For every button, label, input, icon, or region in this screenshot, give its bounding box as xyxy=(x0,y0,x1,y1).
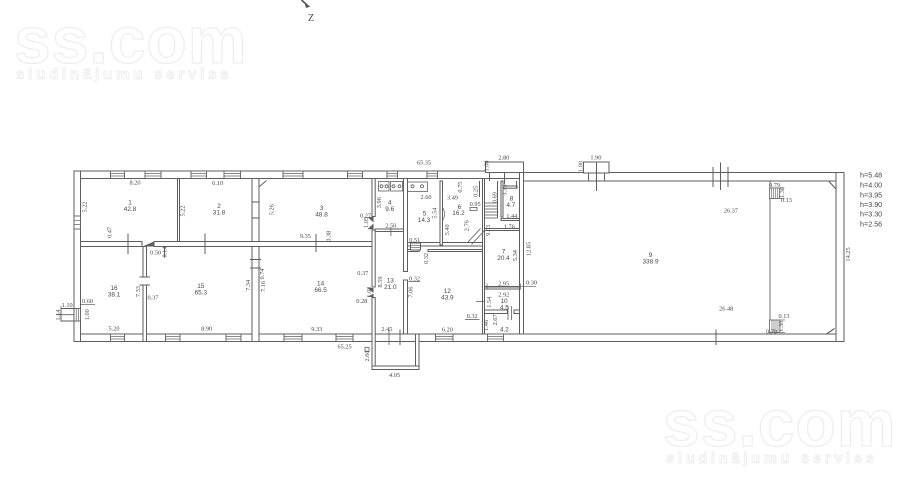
svg-text:0.69: 0.69 xyxy=(491,192,498,203)
wc circle 3 xyxy=(392,185,395,188)
thick wall door gap top xyxy=(253,179,259,186)
corridor west wall middle xyxy=(372,230,375,287)
door mark corridor upper A xyxy=(368,217,374,223)
window top 6 xyxy=(348,171,363,179)
svg-text:16.2: 16.2 xyxy=(452,210,465,217)
annex door gap xyxy=(379,335,412,341)
svg-text:6.10: 6.10 xyxy=(212,180,223,187)
svg-text:1.05: 1.05 xyxy=(363,217,370,228)
svg-text:3.35: 3.35 xyxy=(502,185,509,196)
svg-text:0.75: 0.75 xyxy=(457,182,464,193)
window left wall xyxy=(74,216,81,229)
room 12 label xyxy=(441,288,454,302)
porch B outline top xyxy=(584,162,610,173)
room 9 label xyxy=(643,252,659,266)
top wall tick b xyxy=(727,167,729,187)
svg-text:0.38: 0.38 xyxy=(326,231,333,242)
svg-text:9.33: 9.33 xyxy=(311,326,322,333)
wc circle 6 xyxy=(421,185,424,188)
svg-text:14.3: 14.3 xyxy=(418,217,431,224)
svg-text:2.67: 2.67 xyxy=(492,314,499,325)
svg-text:2.60: 2.60 xyxy=(420,194,431,201)
stair hall west wall xyxy=(483,179,485,335)
dim tick 2.95 right xyxy=(520,284,522,290)
svg-text:26.37: 26.37 xyxy=(724,207,738,214)
dim tick 1.10 right xyxy=(73,306,75,311)
room 4 south wall xyxy=(375,229,403,232)
window top 7 xyxy=(387,171,398,179)
porch B tick left xyxy=(588,173,590,182)
svg-text:65.3: 65.3 xyxy=(195,290,208,297)
room 3 label xyxy=(315,205,328,219)
svg-text:38.1: 38.1 xyxy=(108,292,121,299)
rooms 5-6 south wall xyxy=(408,243,483,247)
svg-text:65.25: 65.25 xyxy=(338,343,352,350)
north arrow xyxy=(302,0,311,8)
left porch box xyxy=(61,309,74,322)
svg-text:0.32: 0.32 xyxy=(467,313,478,320)
dim tick 2.95 left xyxy=(486,284,488,290)
room 7 south wall xyxy=(485,287,520,289)
outer wall top-left section xyxy=(74,171,524,179)
dim tick 2.50 xyxy=(390,228,392,237)
window top 1 xyxy=(111,171,125,179)
left porch centerline xyxy=(57,314,75,316)
stair tread 3 xyxy=(485,208,498,210)
hall partition stub top xyxy=(770,188,785,199)
svg-text:5.34: 5.34 xyxy=(512,249,519,261)
svg-text:3.96: 3.96 xyxy=(376,197,383,208)
room 12 door underline xyxy=(409,281,421,283)
svg-text:31.8: 31.8 xyxy=(213,210,226,217)
svg-text:0.32: 0.32 xyxy=(409,275,420,282)
tick mid wall x205 xyxy=(204,234,206,255)
partition 15-16 upper xyxy=(143,247,147,278)
svg-text:9.6: 9.6 xyxy=(385,206,394,213)
underline 0.32 room11 xyxy=(465,319,480,321)
thick wall opening tick bottom xyxy=(250,267,261,269)
porch A centerline xyxy=(504,173,506,185)
svg-text:0.37: 0.37 xyxy=(147,295,158,302)
svg-text:0.79: 0.79 xyxy=(766,328,777,335)
thick wall opening tick top xyxy=(250,259,261,261)
svg-text:4.7: 4.7 xyxy=(506,202,515,209)
svg-text:9.03: 9.03 xyxy=(485,225,492,236)
svg-text:0.28: 0.28 xyxy=(356,298,367,305)
svg-text:5.40: 5.40 xyxy=(444,224,451,235)
window bottom 6 xyxy=(436,334,454,342)
window bottom 3 xyxy=(226,334,241,342)
svg-text:h=3.90: h=3.90 xyxy=(860,200,882,209)
wc circle 1 xyxy=(380,185,383,188)
wc circle 4 xyxy=(398,185,401,188)
svg-text:ss.com: ss.com xyxy=(663,386,896,460)
svg-text:3.49: 3.49 xyxy=(447,195,458,202)
stair tread 2 xyxy=(485,205,498,207)
svg-text:0.32: 0.32 xyxy=(423,253,430,264)
svg-text:5.26: 5.26 xyxy=(269,204,276,215)
hall partition stub bottom xyxy=(770,320,786,333)
door mark corridor lower B xyxy=(368,294,374,298)
tick mid wall x128 xyxy=(127,234,129,255)
svg-text:7.33: 7.33 xyxy=(135,286,142,297)
svg-text:5.54: 5.54 xyxy=(432,207,439,219)
room 6 label xyxy=(452,204,465,217)
porch B centerline xyxy=(596,162,598,191)
stair tread 6 xyxy=(485,217,498,219)
outer wall left xyxy=(74,171,81,342)
room 13 label xyxy=(384,278,397,292)
hall chamfer bottom-right xyxy=(827,329,835,335)
svg-text:1.00: 1.00 xyxy=(577,161,584,172)
svg-text:43.9: 43.9 xyxy=(441,295,454,302)
svg-text:h=3.95: h=3.95 xyxy=(860,191,882,200)
window bottom 4 xyxy=(284,334,302,342)
svg-text:0.14: 0.14 xyxy=(162,246,169,258)
svg-text:5.20: 5.20 xyxy=(108,325,119,332)
svg-text:h=4.00: h=4.00 xyxy=(860,181,882,190)
dim tick 1.10 left xyxy=(60,306,62,311)
window bottom 5 xyxy=(336,334,353,342)
room 12 north wall east segment xyxy=(428,250,483,252)
svg-text:48.8: 48.8 xyxy=(315,212,328,219)
wc box 2 xyxy=(391,182,403,192)
stair tread 4 xyxy=(485,211,498,213)
tick mid wall x316 xyxy=(315,234,317,252)
wc box 1 xyxy=(379,182,390,192)
svg-text:2.50: 2.50 xyxy=(385,223,396,230)
top wall tick a xyxy=(712,167,714,187)
svg-text:8.59: 8.59 xyxy=(377,276,384,287)
room 15 label xyxy=(195,283,208,297)
room 8 north step xyxy=(516,181,518,188)
tick room 10 west xyxy=(476,301,485,303)
thick wall division 1 xyxy=(252,201,259,203)
room 2 label xyxy=(213,203,226,217)
svg-text:2.80: 2.80 xyxy=(498,154,509,161)
wall rooms 10-11 west segment xyxy=(485,310,508,314)
threshold hatch room5 door xyxy=(411,243,421,250)
svg-text:5.22: 5.22 xyxy=(82,201,89,212)
window top 8 xyxy=(427,171,438,179)
stub 0.95 room 6 xyxy=(470,208,477,211)
svg-text:1.30: 1.30 xyxy=(779,187,786,198)
porch A tick left xyxy=(489,173,491,182)
svg-text:h=3.30: h=3.30 xyxy=(860,210,882,219)
mid wall segment west xyxy=(81,242,143,247)
partition rooms 1-2 xyxy=(178,179,180,242)
porch B tick right xyxy=(604,173,606,182)
door arc partition 5-6 xyxy=(443,208,445,221)
room 16 label xyxy=(108,285,121,299)
porch A tick right xyxy=(519,173,521,182)
svg-text:h=2.56: h=2.56 xyxy=(860,220,882,229)
outer wall top-right section xyxy=(524,173,845,182)
thick wall rooms 2-3 / 15-14 xyxy=(252,179,259,342)
stair diagonal 1 xyxy=(468,229,481,243)
window bottom 7 xyxy=(488,334,504,342)
svg-text:2.45: 2.45 xyxy=(381,326,392,333)
wall rooms 10-11 east segment xyxy=(514,310,520,314)
door mark corridor lower A xyxy=(368,288,374,293)
svg-text:1.44: 1.44 xyxy=(506,213,518,220)
svg-text:7.06: 7.06 xyxy=(408,287,415,298)
svg-text:42.8: 42.8 xyxy=(124,206,137,213)
stair tread 1 xyxy=(485,202,498,204)
stair tread 5 xyxy=(485,214,498,216)
door jamb 10-11 b xyxy=(511,306,513,320)
room 7 north wall xyxy=(485,229,520,231)
svg-text:2.76: 2.76 xyxy=(463,220,470,231)
underline 0.60 xyxy=(81,304,96,306)
svg-text:0.13: 0.13 xyxy=(778,313,789,320)
hall partition line xyxy=(769,181,771,334)
svg-text:12.85: 12.85 xyxy=(526,242,533,256)
room 1 label xyxy=(124,200,137,214)
wall east of room 13 lower xyxy=(404,280,408,334)
svg-text:14.25: 14.25 xyxy=(845,247,852,261)
svg-text:0.95: 0.95 xyxy=(470,201,481,208)
svg-text:Z: Z xyxy=(308,13,314,24)
svg-text:9.35: 9.35 xyxy=(300,233,311,240)
tick bottom wall x400 xyxy=(399,330,401,346)
svg-text:1.90: 1.90 xyxy=(590,154,601,161)
door swing room 3 xyxy=(260,181,267,187)
corridor west wall upper xyxy=(372,179,375,217)
room 5 label xyxy=(418,211,431,225)
svg-text:66.5: 66.5 xyxy=(314,287,327,294)
svg-text:6.20: 6.20 xyxy=(442,326,453,333)
room 8 west wall xyxy=(501,181,503,217)
svg-text:8.90: 8.90 xyxy=(201,326,212,333)
svg-text:0.60: 0.60 xyxy=(82,298,93,305)
svg-text:26.48: 26.48 xyxy=(719,306,733,313)
svg-text:338.9: 338.9 xyxy=(643,259,659,266)
room 7 label xyxy=(497,249,510,263)
svg-text:20.4: 20.4 xyxy=(497,255,510,262)
svg-text:sludinājumu serviss: sludinājumu serviss xyxy=(16,66,232,83)
svg-text:8.20: 8.20 xyxy=(129,180,140,187)
room 14 label xyxy=(314,281,327,295)
window top 4 xyxy=(224,171,241,179)
wall east of rooms 4-13 upper xyxy=(404,179,408,272)
wc circle 2 xyxy=(385,185,388,188)
svg-text:4.5: 4.5 xyxy=(500,304,509,311)
svg-text:0.37: 0.37 xyxy=(357,270,368,277)
svg-text:65.35: 65.35 xyxy=(417,160,431,167)
stub 0.25 room 6 xyxy=(479,181,481,197)
svg-text:1.76: 1.76 xyxy=(504,223,515,230)
annex step box xyxy=(365,348,369,352)
outer wall right xyxy=(836,173,844,342)
svg-text:5.22: 5.22 xyxy=(180,205,187,216)
thick wall division 2 xyxy=(252,217,259,219)
door mark corridor upper B xyxy=(368,224,374,230)
hall west wall xyxy=(520,173,524,335)
svg-text:2.60: 2.60 xyxy=(364,350,371,361)
window bottom 1 xyxy=(111,334,125,342)
room 8 label xyxy=(506,195,515,209)
corridor west wall lower / annex west wall xyxy=(372,298,375,370)
svg-text:1.00: 1.00 xyxy=(84,309,91,320)
thick wall opening xyxy=(253,260,259,269)
annex east wall xyxy=(416,334,420,370)
partition 15-16 lower xyxy=(143,285,147,342)
svg-text:sludinājumu serviss: sludinājumu serviss xyxy=(666,451,878,467)
svg-text:4.05: 4.05 xyxy=(389,372,400,379)
wc circle 5 xyxy=(411,185,414,188)
svg-text:1.10: 1.10 xyxy=(62,302,73,309)
room 8 north wall xyxy=(503,186,517,188)
svg-text:0.74: 0.74 xyxy=(259,268,266,280)
svg-text:0.25: 0.25 xyxy=(473,186,480,197)
svg-text:4.2: 4.2 xyxy=(500,327,509,334)
room 4 label xyxy=(385,200,394,214)
hall chamfer top-right xyxy=(829,182,837,190)
svg-text:1.03: 1.03 xyxy=(366,287,373,298)
partition rooms 5-6 xyxy=(440,181,443,245)
svg-text:7.16: 7.16 xyxy=(260,281,267,292)
top wall tick center xyxy=(720,163,722,191)
svg-text:1.14: 1.14 xyxy=(55,309,62,321)
room 10 label xyxy=(500,298,509,311)
annex south wall xyxy=(372,366,419,370)
svg-text:1.00: 1.00 xyxy=(484,160,491,171)
svg-text:1.46: 1.46 xyxy=(483,320,490,331)
door jamb 15-16 bottom xyxy=(140,284,151,286)
window top 3 xyxy=(191,171,207,179)
wc box 3 xyxy=(408,182,428,192)
left porch hatch xyxy=(74,309,81,322)
window bottom 2 xyxy=(166,334,181,342)
svg-text:2.95: 2.95 xyxy=(498,280,509,287)
porch A outline top xyxy=(486,162,524,173)
stair diagonal 2 xyxy=(472,231,485,245)
stair rail xyxy=(497,181,499,218)
window top 2 xyxy=(145,171,161,179)
svg-text:0.50: 0.50 xyxy=(150,249,161,256)
bottom wall tick xyxy=(715,330,717,346)
door jamb 10-11 a xyxy=(507,306,509,320)
mid wall segment east xyxy=(154,242,373,247)
svg-text:0.51: 0.51 xyxy=(409,237,420,244)
svg-text:0.30: 0.30 xyxy=(526,280,537,287)
door jamb 15-16 top xyxy=(140,276,151,278)
svg-text:h=5.48: h=5.48 xyxy=(860,171,882,180)
svg-text:7.34: 7.34 xyxy=(245,279,252,291)
outer wall bottom xyxy=(74,334,844,342)
door leaf mid wall xyxy=(143,242,155,247)
dim tick 2.45 xyxy=(388,330,390,345)
tick mid wall x164 xyxy=(164,247,166,258)
svg-text:1.54: 1.54 xyxy=(486,296,493,308)
dim line 2.95-0.30 xyxy=(484,285,536,287)
wall below room 8 xyxy=(501,219,520,221)
svg-text:0.47: 0.47 xyxy=(107,227,114,238)
hall west wall door gap xyxy=(520,280,523,288)
room 12 north wall west segment xyxy=(408,250,420,252)
svg-text:21.0: 21.0 xyxy=(384,284,397,291)
window top 5 xyxy=(283,171,303,179)
svg-text:1.30: 1.30 xyxy=(778,321,785,332)
